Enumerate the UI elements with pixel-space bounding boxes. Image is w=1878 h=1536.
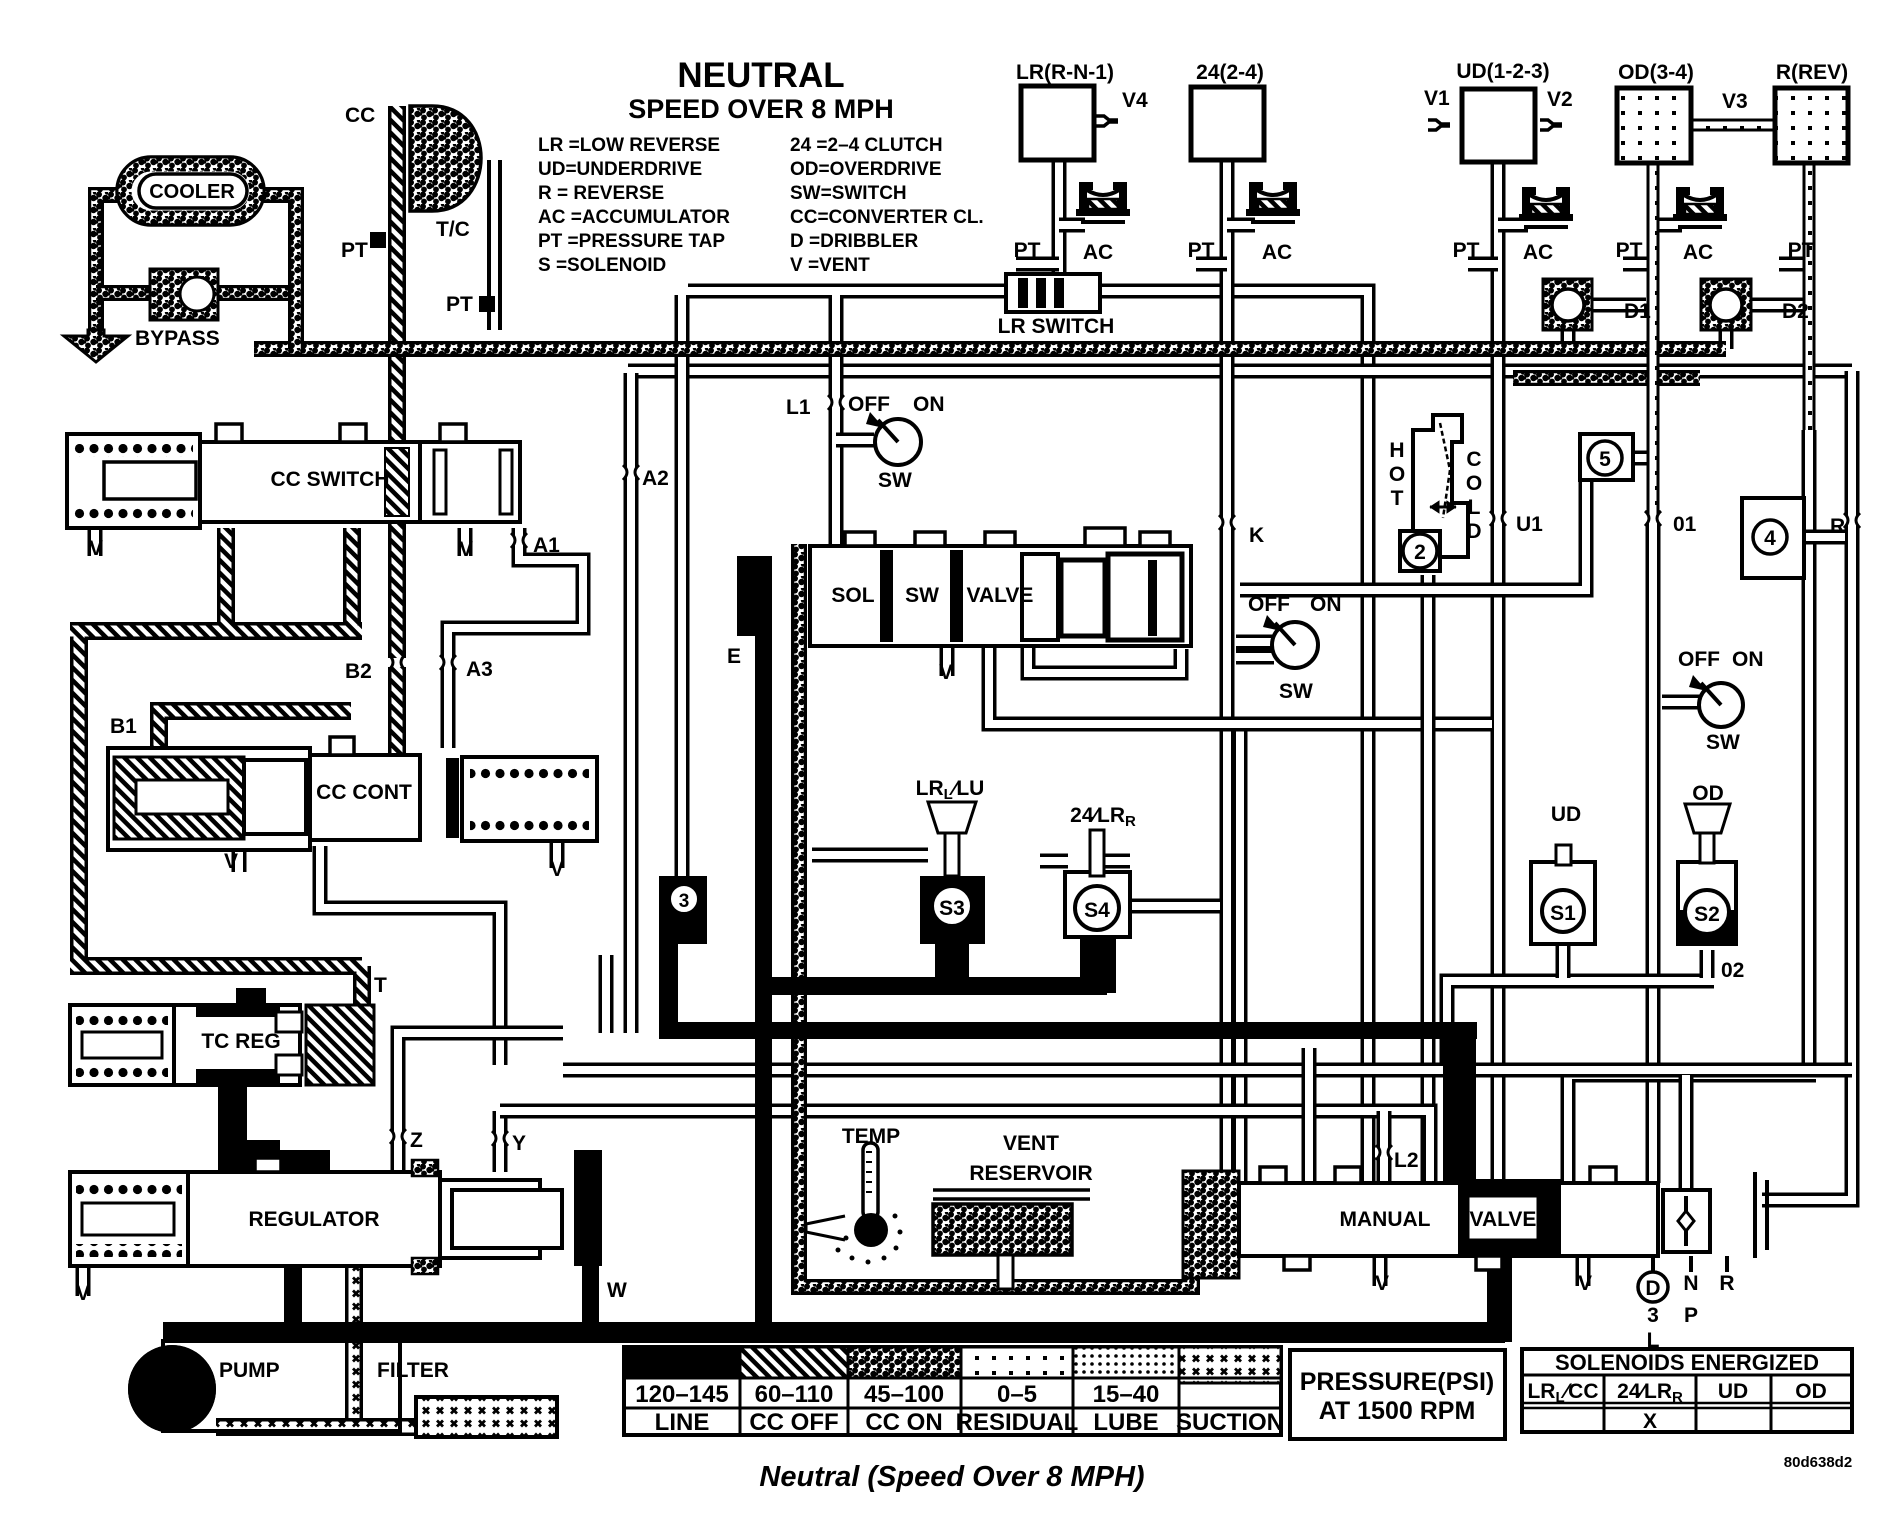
wire main line-pressure band	[163, 1322, 1505, 1343]
wire stip vertical + vent bottom	[799, 546, 1192, 1287]
wire node-3 vertical	[675, 295, 690, 876]
valve MANUAL VALVE	[1183, 1167, 1767, 1302]
svg-text:B1: B1	[110, 715, 137, 738]
svg-text:NEUTRAL: NEUTRAL	[677, 56, 844, 95]
svg-text:UD: UD	[1551, 803, 1581, 826]
svg-text:3: 3	[1647, 1304, 1659, 1327]
wire S1 stem	[1556, 944, 1571, 978]
valve divider bars	[880, 550, 893, 642]
svg-text:SOLENOIDS ENERGIZED: SOLENOIDS ENERGIZED	[1555, 1350, 1819, 1375]
wire B1 hatched branch	[159, 711, 351, 752]
manual valve black section	[1458, 1179, 1561, 1256]
svg-text:4: 4	[1764, 527, 1776, 550]
svg-text:PUMP: PUMP	[219, 1359, 280, 1382]
accumulator AC2	[1246, 182, 1300, 224]
wire suction horizontal	[216, 1418, 416, 1436]
svg-text:O: O	[1466, 472, 1482, 495]
svg-text:L: L	[1468, 496, 1481, 519]
svg-text:24 =2–4 CLUTCH: 24 =2–4 CLUTCH	[790, 135, 943, 156]
svg-text:24(2-4): 24(2-4)	[1196, 61, 1264, 84]
svg-text:V: V	[550, 858, 564, 881]
wire thermo-2 drop	[1421, 575, 1436, 1183]
wire LR clutch down-pipe	[1052, 160, 1067, 278]
solenoid S3	[928, 802, 976, 926]
svg-text:T: T	[374, 974, 387, 997]
svg-text:SW: SW	[1279, 680, 1313, 703]
svg-text:SW: SW	[905, 584, 939, 607]
svg-text:A1: A1	[533, 534, 560, 557]
check valve box	[1663, 1190, 1710, 1252]
svg-text:OFF: OFF	[848, 393, 890, 416]
svg-text:CC ON: CC ON	[865, 1409, 942, 1436]
svg-text:AC: AC	[1262, 241, 1292, 264]
TC REG black bits	[196, 1003, 280, 1017]
vent V2	[1540, 120, 1562, 130]
thermo valve HOT/COLD	[1400, 415, 1468, 571]
svg-text:LINE: LINE	[655, 1409, 710, 1436]
svg-text:PT: PT	[1188, 239, 1215, 262]
wire valve under-loop	[1028, 646, 1181, 673]
node 3 circle	[669, 884, 699, 914]
CC SWITCH valve	[67, 424, 520, 528]
wire suction vertical	[345, 1261, 363, 1418]
pump rotor	[128, 1345, 216, 1433]
bypass valve	[150, 269, 218, 320]
pipe break marks	[510, 533, 528, 548]
wire S4 stubs	[1040, 861, 1220, 906]
wire L2 drop	[1377, 1111, 1392, 1183]
wire y371 long horizontal	[628, 364, 1852, 379]
wire S2 stem	[1700, 950, 1715, 978]
switch SW2	[1263, 615, 1318, 668]
svg-text:A2: A2	[642, 467, 669, 490]
wire L1 vertical	[829, 295, 844, 546]
node E block	[737, 556, 759, 636]
svg-text:R: R	[1719, 1272, 1734, 1295]
wire heavy h1 long	[659, 1022, 1477, 1039]
wire valve5 drop	[1240, 478, 1586, 590]
svg-text:SOL: SOL	[831, 584, 874, 607]
wire 5-box stub	[1633, 451, 1650, 466]
svg-text:R(REV): R(REV)	[1776, 61, 1848, 84]
svg-text:SW=SWITCH: SW=SWITCH	[790, 183, 907, 204]
wire regulator leg	[284, 1261, 302, 1323]
svg-text:OFF: OFF	[1248, 593, 1290, 616]
regulator black end	[574, 1150, 602, 1266]
vent V1	[1428, 120, 1450, 130]
wire OD 01 dotted upper	[1647, 163, 1660, 520]
valve CC CONT	[108, 737, 597, 850]
wire long B row y1111	[500, 1111, 1430, 1183]
svg-text:ON: ON	[913, 393, 945, 416]
wire SW3 feed	[1662, 695, 1702, 710]
wire check valve feed	[1679, 1075, 1694, 1190]
svg-text:R: R	[1830, 515, 1845, 538]
svg-text:H: H	[1389, 439, 1404, 462]
svg-text:T: T	[1391, 487, 1404, 510]
svg-text:CC SWITCH: CC SWITCH	[271, 468, 390, 491]
svg-text:RESERVOIR: RESERVOIR	[969, 1162, 1092, 1185]
accumulator AC4	[1673, 187, 1727, 229]
svg-text:T/C: T/C	[436, 218, 470, 241]
wire CC hatched vertical	[388, 106, 406, 755]
wire heavy h2 S3-S4	[765, 977, 1107, 995]
svg-text:LR(R-N-1): LR(R-N-1)	[1016, 61, 1114, 84]
wire E heavy vertical	[755, 556, 772, 1342]
svg-text:V =VENT: V =VENT	[790, 255, 870, 276]
svg-text:Y: Y	[512, 1132, 526, 1155]
cooler ring	[117, 157, 264, 225]
wire main stippled band	[254, 341, 1726, 357]
wire D2 stubs	[1726, 305, 1809, 349]
svg-text:Z: Z	[410, 1129, 423, 1152]
svg-text:SUCTION: SUCTION	[1176, 1409, 1284, 1436]
LR SWITCH body	[1006, 274, 1100, 312]
svg-text:OD: OD	[1795, 1380, 1827, 1403]
svg-text:COOLER: COOLER	[149, 181, 235, 203]
svg-text:X: X	[1643, 1410, 1657, 1433]
solenoid S3 black box	[920, 876, 985, 944]
svg-text:D: D	[1466, 520, 1481, 543]
svg-text:PRESSURE(PSI): PRESSURE(PSI)	[1300, 1368, 1494, 1396]
svg-text:PT: PT	[1453, 239, 1480, 262]
wire L1-row horizontal y291 to HOT drop	[688, 291, 1368, 1183]
svg-text:02: 02	[1721, 959, 1744, 982]
wire A2 vertical	[624, 373, 639, 1033]
wire cooler left loop	[96, 195, 121, 330]
dribbler D1	[1543, 279, 1592, 330]
svg-text:2: 2	[1414, 541, 1426, 564]
T/C case line	[487, 160, 491, 330]
vent reservoir tank	[933, 1190, 1090, 1289]
solenoid SOL SW VALVE body	[799, 528, 1191, 648]
svg-text:AC: AC	[1083, 241, 1113, 264]
wire bypass right link	[218, 285, 296, 301]
svg-text:VALVE: VALVE	[1470, 1208, 1537, 1231]
wire corner loop left	[599, 955, 614, 1033]
svg-text:PT: PT	[446, 293, 473, 316]
svg-text:VENT: VENT	[1003, 1132, 1059, 1155]
wire manual valve feed	[1443, 1022, 1476, 1190]
svg-text:VALVE: VALVE	[967, 584, 1034, 607]
wire drop x1309	[1302, 1048, 1317, 1183]
svg-text:SPEED OVER 8 MPH: SPEED OVER 8 MPH	[628, 94, 894, 124]
filter element	[416, 1397, 557, 1437]
svg-text:PT: PT	[1788, 239, 1815, 262]
CC CONT divider bar	[446, 758, 459, 838]
svg-text:D2: D2	[1782, 300, 1809, 323]
valve TC REG	[70, 988, 374, 1085]
wire long A row y1070	[563, 1063, 1852, 1078]
vent V4	[1096, 116, 1118, 126]
node 3 black box	[659, 876, 707, 944]
switch SW3	[1689, 675, 1743, 727]
svg-text:MANUAL: MANUAL	[1340, 1208, 1431, 1231]
valve 5	[1580, 434, 1633, 480]
svg-text:V: V	[224, 850, 238, 873]
bypass arrow	[64, 330, 128, 362]
svg-text:LUBE: LUBE	[1093, 1409, 1158, 1436]
svg-text:V: V	[76, 1282, 90, 1305]
svg-text:120–145: 120–145	[635, 1381, 728, 1408]
svg-text:V: V	[939, 661, 953, 684]
wire SW row y724	[989, 646, 1492, 724]
clutch R box stippled	[1775, 88, 1848, 163]
svg-text:OD(3-4): OD(3-4)	[1618, 61, 1694, 84]
svg-text:S =SOLENOID: S =SOLENOID	[538, 255, 666, 276]
svg-text:REGULATOR: REGULATOR	[248, 1208, 379, 1231]
svg-text:V4: V4	[1122, 89, 1148, 112]
svg-text:E: E	[727, 645, 741, 668]
svg-text:AC =ACCUMULATOR: AC =ACCUMULATOR	[538, 207, 730, 228]
svg-text:LR SWITCH: LR SWITCH	[998, 315, 1115, 338]
svg-text:SW: SW	[878, 469, 912, 492]
svg-text:V3: V3	[1722, 90, 1748, 113]
svg-text:D =DRIBBLER: D =DRIBBLER	[790, 231, 919, 252]
svg-text:V1: V1	[1424, 87, 1450, 110]
solenoid S4 pedestal	[1080, 931, 1116, 993]
svg-text:ON: ON	[1732, 648, 1764, 671]
clutch 24 box	[1191, 87, 1264, 160]
svg-text:AC: AC	[1523, 241, 1553, 264]
wire vent stubs	[88, 528, 103, 556]
svg-text:PT: PT	[341, 239, 368, 262]
svg-text:CC=CONVERTER CL.: CC=CONVERTER CL.	[790, 207, 984, 228]
T/C converter dome	[410, 106, 481, 211]
svg-text:P: P	[1684, 1304, 1698, 1327]
svg-text:3: 3	[679, 891, 690, 912]
svg-text:01: 01	[1673, 513, 1697, 536]
wire W stem	[582, 1266, 599, 1324]
wire bypass left link	[96, 285, 150, 301]
svg-text:80d638d2: 80d638d2	[1784, 1454, 1852, 1471]
accumulator AC3	[1519, 187, 1573, 229]
svg-text:TC REG: TC REG	[201, 1030, 280, 1053]
switch SW1	[866, 412, 921, 465]
wire R line lower + bottom return	[1568, 430, 1816, 1183]
wire S3 feed	[812, 848, 928, 863]
wire Z line	[398, 1033, 563, 1172]
valve REGULATOR	[70, 1150, 602, 1274]
PT tap TC	[479, 296, 495, 312]
wire CC CONT bottom run	[320, 846, 500, 1065]
svg-text:LR =LOW REVERSE: LR =LOW REVERSE	[538, 135, 720, 156]
wire OD 01 line lower part	[1646, 520, 1661, 1183]
clutch UD box	[1462, 89, 1535, 162]
wire SW2 feed	[1236, 635, 1274, 650]
svg-text:N: N	[1683, 1272, 1698, 1295]
svg-text:S2: S2	[1694, 903, 1720, 926]
svg-text:D: D	[1645, 1277, 1660, 1300]
svg-text:OD=OVERDRIVE: OD=OVERDRIVE	[790, 159, 942, 180]
svg-text:L1: L1	[786, 396, 811, 419]
thermometer TEMP	[806, 1143, 903, 1265]
svg-text:S4: S4	[1084, 899, 1110, 922]
solenoid S4	[1065, 830, 1130, 937]
svg-text:A3: A3	[466, 658, 493, 681]
svg-text:AC: AC	[1683, 241, 1713, 264]
svg-text:B2: B2	[345, 660, 372, 683]
svg-text:W: W	[607, 1279, 627, 1302]
svg-text:60–110: 60–110	[755, 1381, 834, 1408]
svg-text:D1: D1	[1624, 300, 1651, 323]
wire V3 link	[1691, 119, 1775, 132]
wire node3 leg	[659, 944, 678, 1027]
wire S3 leg	[935, 944, 969, 978]
wire cooler right down	[259, 195, 296, 349]
wire B hatched loop	[70, 528, 362, 1005]
right bracket	[1755, 1172, 1767, 1258]
valve 4	[1742, 498, 1804, 578]
svg-text:S1: S1	[1550, 902, 1576, 925]
svg-text:TEMP: TEMP	[842, 1125, 900, 1148]
svg-text:UD=UNDERDRIVE: UD=UNDERDRIVE	[538, 159, 702, 180]
svg-text:V: V	[89, 537, 103, 560]
svg-text:K: K	[1249, 524, 1264, 547]
svg-text:O: O	[1389, 463, 1405, 486]
svg-text:S3: S3	[939, 897, 965, 920]
wire SW1 feed	[836, 433, 874, 448]
dribbler D2	[1701, 279, 1751, 330]
svg-text:0–5: 0–5	[997, 1381, 1037, 1408]
wire Y line	[493, 1111, 508, 1172]
wire A1-A3 path	[448, 528, 583, 748]
svg-text:CC OFF: CC OFF	[749, 1409, 838, 1436]
svg-text:Neutral (Speed Over 8 MPH): Neutral (Speed Over 8 MPH)	[759, 1461, 1144, 1493]
svg-text:CC: CC	[345, 104, 375, 127]
wire loop drop	[1233, 724, 1248, 1183]
svg-text:ON: ON	[1310, 593, 1342, 616]
wire 24 clutch K line	[1220, 160, 1235, 1183]
accumulator AC1	[1076, 182, 1130, 224]
wire 02 line	[1447, 981, 1714, 1068]
wire manual valve drain	[1487, 1256, 1512, 1342]
svg-text:V: V	[459, 538, 473, 561]
DNR ticks	[1653, 1256, 1727, 1272]
svg-text:OD: OD	[1692, 782, 1724, 805]
svg-text:15–40: 15–40	[1093, 1381, 1160, 1408]
svg-text:AT 1500 RPM: AT 1500 RPM	[1319, 1397, 1476, 1425]
wire LR PT tee	[1016, 257, 1059, 272]
wire TCREG-REG link	[218, 1085, 247, 1145]
wire R dotted upper	[1803, 163, 1816, 430]
svg-text:L2: L2	[1394, 1149, 1419, 1172]
solenoid S1	[1531, 845, 1595, 944]
pump body	[163, 1341, 400, 1431]
svg-text:SW: SW	[1706, 731, 1740, 754]
svg-text:FILTER: FILTER	[377, 1359, 449, 1382]
svg-text:PT: PT	[1616, 239, 1643, 262]
svg-text:BYPASS: BYPASS	[135, 327, 220, 350]
svg-text:UD(1-2-3): UD(1-2-3)	[1456, 60, 1549, 83]
svg-text:UD: UD	[1718, 1380, 1748, 1403]
svg-text:PT =PRESSURE TAP: PT =PRESSURE TAP	[538, 231, 725, 252]
PT tap top	[370, 232, 386, 248]
svg-text:V: V	[1375, 1272, 1389, 1295]
wire SW2 second feed	[1236, 650, 1274, 665]
wire D1 D2 collector	[1513, 370, 1700, 386]
svg-text:45–100: 45–100	[864, 1381, 944, 1408]
wire UD clutch U1 line	[1491, 162, 1506, 1183]
solenoid S2	[1678, 804, 1736, 946]
svg-text:5: 5	[1599, 448, 1611, 471]
svg-text:RESIDUAL: RESIDUAL	[956, 1409, 1079, 1436]
clutch OD box stippled	[1617, 88, 1691, 163]
svg-text:OFF: OFF	[1678, 648, 1720, 671]
clutch LR box	[1021, 86, 1094, 160]
svg-text:CC CONT: CC CONT	[316, 781, 412, 804]
wire 4-box stub	[1806, 530, 1845, 545]
svg-text:V2: V2	[1547, 88, 1573, 111]
wire right return to manual valve	[1762, 371, 1852, 1200]
svg-text:R = REVERSE: R = REVERSE	[538, 183, 664, 204]
wire D1 stubs	[1568, 305, 1646, 349]
svg-text:V: V	[1578, 1272, 1592, 1295]
svg-text:U1: U1	[1516, 513, 1543, 536]
svg-text:C: C	[1466, 448, 1481, 471]
svg-text:PT: PT	[1014, 239, 1041, 262]
